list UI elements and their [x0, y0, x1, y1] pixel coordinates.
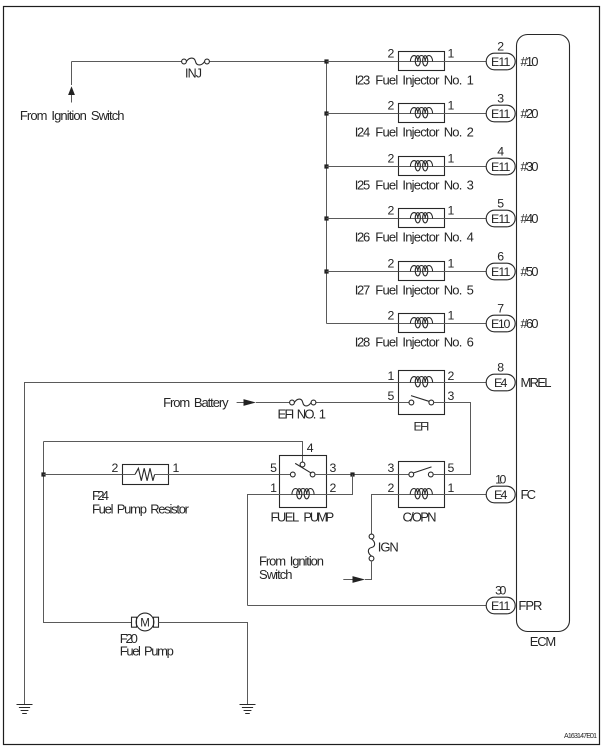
svg-text:E11: E11	[491, 265, 511, 279]
svg-text:3: 3	[387, 461, 394, 475]
wire: left pump bus down to motor	[44, 442, 132, 623]
svg-text:1: 1	[448, 309, 455, 323]
fuel injector I27 (Fuel Injector No. 5)	[399, 262, 445, 281]
svg-text:2: 2	[387, 309, 394, 323]
wire: EFI pin 3 down to C/OPN pin 5	[445, 403, 471, 475]
svg-text:1: 1	[387, 369, 394, 383]
wire: relay output bus to FUEL PUMP pin 4	[44, 442, 303, 463]
svg-text:IGN: IGN	[378, 540, 399, 555]
connector E11 (row 3)	[486, 158, 515, 175]
svg-text:C/OPN: C/OPN	[403, 510, 437, 525]
svg-text:6: 6	[497, 250, 504, 264]
junction: pin3/pin2 jumper tap	[350, 472, 354, 476]
wire: C/OPN pin 1 to FC connector	[445, 494, 487, 496]
fuel injector I23 (Fuel Injector No. 1)	[399, 52, 445, 71]
wire: injector I24 to ECM connector	[445, 113, 487, 115]
svg-text:1: 1	[448, 481, 455, 495]
wire: bus to injector I26	[327, 218, 399, 220]
fuel injector I25 (Fuel Injector No. 3)	[399, 157, 445, 176]
svg-text:E10: E10	[491, 317, 511, 331]
svg-text:Fuel Injector No. 1: Fuel Injector No. 1	[375, 73, 474, 88]
svg-text:INJ: INJ	[185, 66, 202, 80]
svg-text:Fuel Injector No. 3: Fuel Injector No. 3	[375, 178, 474, 193]
svg-text:I23: I23	[355, 73, 371, 88]
wire: injector I23 to ECM connector	[445, 61, 487, 63]
svg-text:2: 2	[387, 204, 394, 218]
svg-text:1: 1	[448, 204, 455, 218]
svg-text:#20: #20	[521, 106, 539, 121]
svg-text:I25: I25	[355, 178, 371, 193]
wire: FUEL PUMP pin 3 to C/OPN pin 3	[327, 474, 399, 476]
wire: injector I26 to ECM connector	[445, 218, 487, 220]
svg-text:FUEL: FUEL	[271, 510, 300, 525]
svg-text:E4: E4	[494, 376, 508, 390]
relay C/OPN	[399, 462, 445, 508]
fuel injector I24 (Fuel Injector No. 2)	[399, 104, 445, 123]
wire: FPR line to ECM	[248, 605, 487, 607]
svg-text:I26: I26	[355, 230, 371, 245]
svg-text:3: 3	[497, 92, 504, 106]
svg-text:From Battery: From Battery	[163, 395, 229, 410]
resistor F24	[123, 465, 169, 485]
wire: EFI pin 2 to MREL connector	[445, 382, 487, 384]
svg-text:#30: #30	[521, 159, 539, 174]
svg-text:E4: E4	[494, 488, 508, 502]
svg-text:I27: I27	[355, 283, 371, 298]
wire: bus to injector I28	[327, 323, 399, 325]
connector E4 (FC)	[486, 486, 515, 503]
svg-text:#60: #60	[521, 316, 539, 331]
connector E11 (row 5)	[486, 263, 515, 280]
connector E11 (row 4)	[486, 210, 515, 227]
wire: pump bus to resistor F24	[44, 474, 123, 476]
svg-text:Fuel Injector No. 6: Fuel Injector No. 6	[375, 335, 474, 350]
svg-text:#40: #40	[521, 211, 539, 226]
wire: injector I27 to ECM connector	[445, 271, 487, 273]
svg-text:#50: #50	[521, 264, 539, 279]
svg-text:1: 1	[448, 152, 455, 166]
svg-text:I24: I24	[355, 125, 371, 140]
svg-text:EFI: EFI	[414, 419, 430, 433]
junction on injector bus y=113.5	[324, 111, 328, 115]
svg-text:1: 1	[270, 481, 277, 495]
wire: below IGN fuse to source arrow	[365, 561, 372, 580]
svg-text:4: 4	[307, 441, 314, 455]
svg-text:2: 2	[330, 481, 337, 495]
svg-text:Fuel Pump: Fuel Pump	[120, 644, 174, 659]
svg-text:2: 2	[497, 40, 504, 54]
connector E4 (MREL)	[486, 374, 515, 391]
svg-text:E11: E11	[491, 107, 511, 121]
svg-text:5: 5	[387, 389, 394, 403]
svg-text:5: 5	[448, 461, 455, 475]
svg-text:30: 30	[495, 584, 506, 598]
wire: ignition feed to INJ fuse	[72, 61, 327, 63]
svg-text:Fuel Pump Resistor: Fuel Pump Resistor	[92, 501, 190, 516]
wire: bus to injector I24	[327, 113, 399, 115]
svg-text:Fuel Injector No. 4: Fuel Injector No. 4	[375, 230, 474, 245]
svg-text:EFI NO. 1: EFI NO. 1	[278, 407, 327, 422]
wire: jumper to FUEL PUMP pin 2	[327, 475, 353, 495]
wire: bus to injector I25	[327, 166, 399, 168]
svg-text:8: 8	[497, 361, 504, 375]
relay EFI	[399, 371, 445, 415]
svg-text:5: 5	[270, 461, 277, 475]
junction: resistor tap on pump bus	[41, 472, 45, 476]
svg-text:2: 2	[387, 257, 394, 271]
svg-text:2: 2	[111, 461, 118, 475]
svg-text:ECM: ECM	[530, 634, 557, 649]
svg-text:I28: I28	[355, 335, 371, 350]
svg-text:#10: #10	[521, 54, 539, 69]
svg-text:2: 2	[387, 481, 394, 495]
svg-text:4: 4	[497, 145, 504, 159]
fuel injector I28 (Fuel Injector No. 6)	[399, 314, 445, 333]
svg-text:3: 3	[448, 389, 455, 403]
junction on injector bus y=166.5	[324, 164, 328, 168]
svg-text:E11: E11	[491, 212, 511, 226]
wire: bus to injector I23	[327, 61, 399, 63]
motor F20 fuel pump	[132, 613, 159, 631]
svg-text:1: 1	[448, 257, 455, 271]
wire: bus to injector I27	[327, 271, 399, 273]
fuse EFI NO. 1	[290, 400, 295, 405]
wire: EFI relay pin 1 to left bus	[25, 383, 399, 705]
fuse IGN	[369, 534, 374, 539]
arrow: from ignition switch (pointing right, bottom)	[343, 579, 352, 581]
fuse INJ	[182, 59, 187, 64]
svg-text:E11: E11	[491, 599, 511, 613]
svg-text:7: 7	[497, 302, 504, 316]
svg-text:2: 2	[387, 152, 394, 166]
connector E11 (FPR)	[486, 597, 515, 614]
svg-text:5: 5	[497, 197, 504, 211]
ground (left)	[17, 705, 33, 714]
svg-text:1: 1	[448, 99, 455, 113]
junction on injector bus y=271.5	[324, 269, 328, 273]
arrow: from ignition switch (pointing up)	[68, 86, 75, 95]
svg-text:1: 1	[173, 461, 180, 475]
wire: motor to ground drop	[159, 623, 248, 705]
svg-text:From Ignition Switch: From Ignition Switch	[20, 108, 125, 123]
svg-text:Fuel Injector No. 2: Fuel Injector No. 2	[375, 125, 474, 140]
svg-text:Fuel Injector No. 5: Fuel Injector No. 5	[375, 283, 474, 298]
wire: injector I28 to ECM connector	[445, 323, 487, 325]
wire: resistor to FUEL PUMP pin 5	[169, 474, 280, 476]
svg-text:E11: E11	[491, 160, 511, 174]
svg-text:E11: E11	[491, 55, 511, 69]
ECM box	[517, 35, 570, 632]
junction on injector bus y=218.5	[324, 216, 328, 220]
wire: FUEL PUMP pin 1 to FPR line	[248, 495, 280, 606]
svg-text:FC: FC	[521, 487, 537, 502]
wire: battery feed to EFI NO. 1 fuse	[256, 402, 399, 404]
wire: injector I25 to ECM connector	[445, 166, 487, 168]
svg-text:PUMP: PUMP	[303, 510, 334, 525]
svg-text:2: 2	[387, 99, 394, 113]
svg-text:MREL: MREL	[521, 375, 552, 390]
wire: injector supply bus	[326, 62, 328, 324]
svg-text:2: 2	[448, 369, 455, 383]
wire: vertical drop at left of INJ feed	[71, 62, 73, 86]
wire: C/OPN pin 2 down to IGN fuse	[372, 495, 399, 535]
connector E10 (row 6)	[486, 315, 515, 332]
relay FUEL PUMP	[280, 456, 327, 508]
svg-text:Switch: Switch	[259, 567, 293, 582]
svg-text:3: 3	[330, 461, 337, 475]
connector E11 (row 1)	[486, 53, 515, 70]
svg-text:10: 10	[495, 473, 506, 487]
svg-text:1: 1	[448, 47, 455, 61]
svg-text:FPR: FPR	[518, 598, 542, 613]
junction on injector bus y=61.5	[324, 59, 328, 63]
ground (center)	[240, 705, 256, 714]
svg-text:A163147E01: A163147E01	[564, 733, 597, 740]
svg-text:2: 2	[387, 47, 394, 61]
connector E11 (row 2)	[486, 105, 515, 122]
svg-text:M: M	[140, 617, 150, 629]
fuel injector I26 (Fuel Injector No. 4)	[399, 209, 445, 228]
arrow: from battery (pointing right)	[237, 402, 244, 404]
